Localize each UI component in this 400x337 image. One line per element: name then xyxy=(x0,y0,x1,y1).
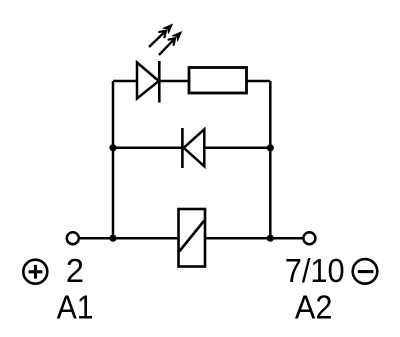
svg-text:7/10: 7/10 xyxy=(285,252,345,289)
svg-text:2: 2 xyxy=(66,252,84,289)
svg-text:A1: A1 xyxy=(57,288,94,325)
svg-text:A2: A2 xyxy=(295,288,333,325)
